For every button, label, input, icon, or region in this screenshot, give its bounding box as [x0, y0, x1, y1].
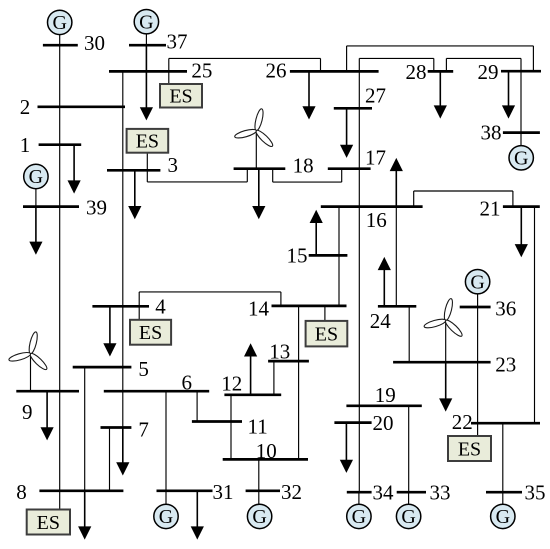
load arrow bus 28: [434, 71, 447, 118]
wire bus12-bus11 (11-12): [230, 395, 232, 422]
wire bus10-bus32 (10-32): [258, 459, 260, 490]
wire bus14-bus13 (13-14): [298, 306, 300, 361]
flow arrow at bus 16 up: [390, 158, 403, 207]
wire bus16-bus24 (16-24): [395, 207, 397, 307]
bus 4 bar: [92, 305, 149, 308]
wire 4-14 link drop to bus14: [280, 292, 282, 306]
svg-text:31: 31: [213, 480, 234, 504]
svg-text:26: 26: [266, 59, 287, 83]
wire bus17-bus16 (16-17): [358, 169, 360, 207]
flow arrow bus 15 to 16: [310, 210, 323, 256]
generator G at bus 30: [48, 10, 72, 34]
load arrow bus 23: [439, 362, 452, 411]
svg-text:11: 11: [248, 414, 268, 438]
bus 3 bar: [107, 169, 160, 172]
bus 17 bar: [328, 167, 371, 170]
load arrow bus 7: [116, 428, 129, 476]
bus 7 bar: [101, 426, 132, 429]
svg-text:G: G: [514, 147, 528, 169]
load arrow bus 27: [340, 108, 353, 158]
load arrow bus 8: [78, 491, 91, 540]
wire 29-link through bus29 to bus38 (28-29, 29-38): [520, 58, 522, 132]
svg-text:13: 13: [269, 340, 290, 364]
svg-text:35: 35: [525, 481, 546, 505]
svg-text:28: 28: [406, 60, 427, 84]
energy storage ES at bus 4: [130, 320, 171, 345]
wire bus23-bus22 (22-23): [477, 362, 479, 423]
svg-text:G: G: [52, 12, 66, 34]
wire stub bus28 to 29-link: [445, 58, 447, 71]
wire bus22-bus35 (22-35): [502, 423, 504, 492]
wire 26-link drop to bus26: [320, 58, 322, 71]
energy storage ES at bus 3: [127, 129, 169, 153]
svg-text:G: G: [496, 506, 510, 528]
svg-text:G: G: [29, 166, 43, 188]
svg-text:ES: ES: [169, 86, 192, 108]
bus 38 bar: [503, 131, 540, 134]
wire 29-loop horizontal (26-29): [347, 45, 534, 47]
load arrow bus 4: [103, 306, 116, 356]
wire WT3 pole to bus23: [445, 320, 447, 362]
bus 32 bar: [246, 489, 280, 492]
wind turbine W2: [8, 331, 49, 371]
wire stub bus25 to 26-link: [168, 58, 170, 71]
bus 36 bar: [460, 306, 491, 309]
wire stub bus18 to 3-link: [246, 169, 248, 182]
wire bus2-bus1 (1-2): [59, 107, 61, 145]
svg-text:32: 32: [281, 480, 302, 504]
bus 23 bar: [393, 361, 491, 364]
wire bus30-bus2 (30-2): [59, 45, 61, 107]
svg-text:33: 33: [430, 481, 451, 505]
bus 34 bar: [347, 491, 372, 494]
svg-text:16: 16: [366, 208, 387, 232]
svg-text:29: 29: [478, 60, 499, 84]
bus 8 bar: [39, 489, 123, 492]
flow arrow bus 12 to 13: [244, 343, 257, 395]
bus 18 bar: [234, 167, 286, 170]
wire bus1-bus39 (1-39): [59, 145, 61, 207]
generator G at bus 35: [491, 504, 515, 528]
svg-text:G: G: [352, 506, 366, 528]
bus 11 bar: [192, 420, 242, 423]
bus 19 bar: [346, 404, 421, 407]
wire bus5-bus8 (5-8): [84, 367, 86, 491]
wire bus26-bus27 (26-27): [358, 58, 360, 108]
flow arrow bus 24 to 16: [378, 257, 391, 306]
energy storage ES at bus 14: [306, 321, 348, 347]
svg-text:ES: ES: [315, 323, 338, 345]
load arrow bus 26: [302, 71, 315, 119]
bus 22 bar: [471, 422, 540, 425]
bus 2 bar: [38, 105, 126, 108]
wire bus9-bus8 (8-9): [59, 391, 61, 491]
bus 39 bar: [23, 205, 79, 208]
wire stub bus16 to 21-link: [413, 191, 415, 207]
wire stub bus3 through ES2 to 3-link: [146, 153, 148, 182]
wire bus24-bus23 (23-24): [408, 306, 410, 362]
svg-text:21: 21: [480, 196, 501, 220]
wire bus34-G34: [358, 492, 360, 504]
wire 29-link horizontal (28-29): [446, 57, 521, 59]
svg-text:2: 2: [20, 95, 31, 119]
generator G at bus 33: [396, 504, 420, 528]
svg-text:30: 30: [84, 31, 105, 55]
svg-text:ES: ES: [458, 438, 481, 460]
wire 25-26 link horizontal: [169, 57, 321, 59]
svg-text:7: 7: [138, 417, 149, 441]
wire stub bus14 to ES4 box: [324, 306, 326, 321]
generator G at bus 37: [134, 10, 158, 34]
load arrow bus 9: [41, 391, 54, 440]
energy storage ES at bus 8: [27, 510, 70, 535]
svg-text:12: 12: [221, 372, 242, 396]
bus 37 bar: [129, 44, 166, 47]
svg-text:39: 39: [86, 196, 107, 220]
bus 20 bar: [334, 421, 371, 424]
load arrow bus 18: [252, 169, 265, 220]
wire bus4-bus5 (4-5): [122, 306, 124, 367]
wire bus32-G32: [258, 491, 260, 504]
wire bus13-bus10 (10-13): [298, 361, 300, 459]
wire stub bus18 to 17-link: [272, 169, 274, 182]
svg-text:37: 37: [167, 30, 188, 54]
wire G30-bus30: [59, 35, 61, 46]
wire bus5-bus6 (5-6): [122, 367, 124, 391]
wire bus6-bus7 (6-7): [122, 391, 124, 427]
svg-text:ES: ES: [139, 322, 162, 344]
wire bus13-bus12 (12-13): [273, 361, 275, 395]
svg-text:18: 18: [293, 153, 314, 177]
svg-text:1: 1: [20, 133, 31, 157]
wire bus16-bus15 (15-16): [338, 207, 340, 256]
svg-text:5: 5: [138, 357, 149, 381]
svg-text:G: G: [252, 506, 266, 528]
svg-text:6: 6: [182, 370, 193, 394]
wire bus36-bus23 (23-36): [477, 307, 479, 362]
svg-text:27: 27: [365, 84, 386, 108]
bus 33 bar: [397, 491, 426, 494]
wire bus11-bus10 (10-11): [230, 422, 232, 460]
energy storage ES at bus 25: [160, 84, 202, 108]
bus 6 bar: [104, 390, 209, 393]
svg-text:10: 10: [256, 439, 277, 463]
wire WT2 pole to bus9: [30, 354, 32, 392]
svg-text:22: 22: [452, 410, 473, 434]
wire bus38-G38: [520, 133, 522, 146]
wire bus8-ES6 box: [59, 491, 61, 510]
wire bus25-bus2 segment (2-25): [122, 71, 124, 106]
wire 21-link drop to bus21: [512, 191, 514, 207]
svg-text:25: 25: [191, 59, 212, 83]
svg-text:19: 19: [375, 383, 396, 407]
bus 10 bar: [223, 458, 308, 461]
bus 13 bar: [268, 360, 309, 363]
wire bus22-ES5 box: [477, 423, 479, 436]
svg-text:17: 17: [365, 145, 386, 169]
wire 17-link rise to bus17: [341, 169, 343, 182]
load arrow bus 3: [128, 170, 141, 219]
svg-text:24: 24: [370, 309, 392, 333]
wire bus3-bus4 (3-4): [122, 170, 124, 306]
wire stub bus26 to 29-loop: [346, 46, 348, 72]
bus 25 bar: [109, 70, 187, 73]
wire stub bus4 to ES3 box: [138, 306, 140, 320]
load arrow bus 29: [502, 71, 515, 118]
generator G at bus 31: [154, 504, 178, 528]
svg-text:15: 15: [287, 243, 308, 267]
wire WT1 pole to bus18: [255, 131, 257, 169]
bus 35 bar: [486, 491, 522, 494]
bus 24 bar: [378, 305, 416, 308]
svg-text:23: 23: [495, 352, 516, 376]
wire bus7-bus8 (7-8): [109, 428, 111, 491]
generator G at bus 34: [347, 504, 371, 528]
svg-text:G: G: [401, 506, 415, 528]
svg-text:G: G: [139, 11, 153, 33]
generator G at bus 39: [24, 164, 48, 188]
bus 9 bar: [16, 390, 79, 393]
wire 28-link horizontal (26-28): [359, 57, 434, 59]
wire bus16-bus19 (16-19): [358, 207, 360, 406]
generator G at bus 36: [465, 270, 489, 294]
svg-text:ES: ES: [136, 131, 159, 153]
wire G39-bus39: [35, 189, 37, 207]
svg-text:ES: ES: [37, 512, 60, 534]
wire 16-21 link horizontal: [414, 190, 513, 192]
svg-text:20: 20: [373, 411, 394, 435]
load arrow bus 1: [68, 145, 81, 194]
wire 18-17 link horizontal: [273, 181, 342, 183]
wire 4-14 link rise from bus4: [138, 292, 140, 306]
bus 31 bar: [157, 489, 213, 492]
wire stub G37 above bus37: [145, 34, 147, 45]
svg-text:4: 4: [155, 295, 166, 319]
wind turbine W3: [423, 298, 464, 338]
bus 12 bar: [224, 393, 281, 396]
svg-text:G: G: [159, 506, 173, 528]
wire 28-link drop to bus28: [433, 58, 435, 71]
svg-text:36: 36: [495, 297, 516, 321]
svg-text:G: G: [470, 271, 484, 293]
wire bus20-bus34 (20-34): [358, 423, 360, 493]
bus 27 bar: [334, 107, 372, 110]
bus 29 bar: [501, 70, 541, 73]
load arrow bus 25: [140, 45, 153, 120]
svg-text:3: 3: [168, 153, 179, 177]
wire 4-14 link horizontal: [139, 291, 281, 293]
load arrow bus 39: [29, 207, 42, 255]
load arrow bus 21: [515, 207, 528, 258]
wire 29-loop drop to bus29 (26-29): [532, 46, 534, 71]
wire bus39-bus9 (9-39): [59, 207, 61, 392]
svg-text:38: 38: [481, 121, 502, 145]
load arrow bus 20: [340, 423, 353, 473]
wire bus6-bus31 (6-31): [165, 391, 167, 491]
svg-text:14: 14: [248, 297, 270, 321]
wire bus31-G31: [165, 491, 167, 504]
wire bus6-bus11 (6-11): [196, 391, 198, 421]
wire G36-bus36: [477, 294, 479, 307]
wire bus2-bus3 (2-3): [122, 107, 124, 171]
wire bus35-G35: [502, 492, 504, 504]
bus 5 bar: [73, 366, 132, 369]
bus 26 bar: [290, 70, 379, 73]
wire bus15-bus14 (14-15): [338, 255, 340, 306]
svg-text:34: 34: [373, 481, 395, 505]
bus 1 bar: [39, 143, 82, 146]
wire bus21-bus22 (21-22): [534, 207, 536, 424]
wire 3-18 link horizontal: [147, 181, 247, 183]
bus 28 bar: [428, 70, 454, 73]
bus 30 bar: [43, 44, 78, 47]
svg-text:9: 9: [22, 400, 33, 424]
bus 16 bar: [321, 205, 423, 208]
wire stub ES1 box to bus25: [168, 71, 170, 84]
generator G at bus 32: [247, 504, 271, 528]
svg-text:8: 8: [16, 480, 27, 504]
wire bus33-G33: [408, 492, 410, 504]
wire bus19-bus33 (19-33): [408, 406, 410, 492]
energy storage ES at bus 22: [448, 436, 491, 461]
bus 21 bar: [503, 205, 540, 208]
load arrow bus 31: [191, 491, 204, 540]
wind turbine W1: [234, 108, 275, 148]
bus 15 bar: [309, 254, 348, 257]
wire bus19-bus20 (19-20): [358, 406, 360, 423]
bus 14 bar: [272, 305, 347, 308]
generator G at bus 38: [509, 146, 533, 170]
wire bus27-bus17 (17-27): [358, 108, 360, 168]
